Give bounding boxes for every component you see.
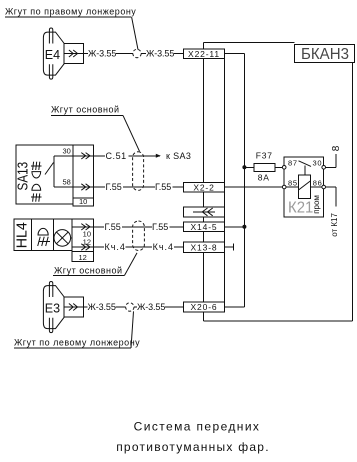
svg-text:Ж-3.55: Ж-3.55 bbox=[137, 302, 165, 312]
svg-text:пром: пром bbox=[312, 195, 321, 214]
svg-text:Жгут по левому лонжерону: Жгут по левому лонжерону bbox=[14, 338, 140, 348]
svg-text:Жгут основной: Жгут основной bbox=[51, 105, 119, 115]
svg-text:Жгут основной: Жгут основной bbox=[54, 265, 122, 275]
SA13 fog icon (position 2) bbox=[31, 184, 41, 201]
svg-text:Г.55: Г.55 bbox=[106, 182, 122, 192]
svg-text:HL4: HL4 bbox=[14, 222, 31, 248]
relay contact 87-30 bbox=[299, 161, 312, 175]
svg-text:E3: E3 bbox=[45, 301, 60, 315]
wire relay 30 up, net 8 bbox=[326, 154, 337, 167]
wire Г.55 from HL4 pin 10 bbox=[93, 226, 104, 228]
wire bbox=[134, 306, 137, 308]
wire with arrow to SA3 bbox=[129, 154, 161, 158]
svg-text:БКАН3: БКАН3 bbox=[301, 46, 349, 63]
svg-text:К21: К21 bbox=[288, 200, 313, 217]
callout label: Жгут по правому лонжерону bbox=[5, 7, 136, 18]
svg-text:58: 58 bbox=[62, 178, 70, 187]
wire bbox=[173, 186, 184, 188]
wire bbox=[116, 53, 133, 55]
relay K21 bbox=[284, 157, 324, 217]
wire bbox=[115, 306, 125, 308]
svg-text:Х22-11: Х22-11 bbox=[188, 49, 220, 59]
svg-text:12: 12 bbox=[79, 253, 87, 262]
wire X2-2 to relay pin 85 bbox=[225, 186, 283, 188]
callout label: Жгут по левому лонжерону bbox=[14, 338, 140, 349]
wire Г.55 from SA13 pin 58 bbox=[93, 186, 105, 188]
connector X2-2 bbox=[183, 182, 224, 192]
junction dot at fuse tap bbox=[242, 165, 246, 169]
svg-text:Г.55: Г.55 bbox=[105, 222, 121, 232]
callout label: Жгут основной (upper) bbox=[51, 105, 123, 116]
drawing caption bbox=[116, 420, 270, 455]
junction dot at X14-5 tap bbox=[242, 225, 246, 229]
leader line to junction on right-member harness bbox=[132, 17, 138, 50]
in-block outgoing arrow symbol bbox=[183, 207, 224, 217]
svg-text:Г.55: Г.55 bbox=[152, 222, 168, 232]
БКАН3 name box bbox=[295, 45, 355, 63]
svg-text:Х20-6: Х20-6 bbox=[191, 302, 218, 312]
svg-text:87: 87 bbox=[288, 159, 298, 168]
wire: X22-11 to power bus bbox=[225, 53, 245, 55]
wire С.51 from SA13 pin 30 bbox=[93, 155, 105, 157]
svg-text:Жгут по правому лонжерону: Жгут по правому лонжерону bbox=[5, 7, 136, 17]
connector X13-8 bbox=[183, 242, 224, 252]
wire Ж-3.55 from E4 to junction bbox=[84, 53, 88, 55]
switch SA13 bbox=[15, 145, 94, 206]
svg-text:Х14-5: Х14-5 bbox=[191, 222, 218, 232]
svg-text:8: 8 bbox=[331, 145, 342, 151]
HL4 pin 10 chevron bbox=[72, 224, 93, 230]
leader line to main harness connector bbox=[123, 115, 140, 151]
inner bus line of БКАН3 bbox=[224, 59, 226, 303]
wire bbox=[122, 226, 152, 228]
svg-text:F37: F37 bbox=[256, 151, 273, 161]
indicator lamp HL4 bbox=[14, 219, 94, 262]
svg-text:Ж-3.55: Ж-3.55 bbox=[146, 49, 174, 59]
svg-text:SA13: SA13 bbox=[15, 162, 32, 191]
svg-text:86: 86 bbox=[313, 178, 323, 187]
wire X14-5 to power bus bbox=[225, 226, 245, 228]
svg-text:Ж-3.55: Ж-3.55 bbox=[88, 49, 116, 59]
svg-text:Кч.4: Кч.4 bbox=[153, 242, 174, 252]
svg-text:85: 85 bbox=[288, 178, 298, 187]
relay coil bbox=[286, 175, 322, 199]
connector X20-6 bbox=[183, 302, 224, 312]
HL4 pin 12 chevron bbox=[72, 244, 93, 250]
inline connector junction (dashed circle) bbox=[133, 49, 141, 57]
inline connector junction (dashed circle) bbox=[126, 303, 134, 311]
svg-text:Система передних: Система передних bbox=[134, 420, 261, 434]
svg-text:Кч.4: Кч.4 bbox=[105, 242, 126, 252]
svg-text:8А: 8А bbox=[258, 173, 270, 183]
main harness pass-through connector (dashed, lower) bbox=[133, 221, 145, 251]
svg-text:10: 10 bbox=[79, 197, 87, 206]
power wire (vertical) bbox=[243, 54, 245, 308]
wire bbox=[126, 246, 153, 248]
connector X22-11 bbox=[183, 49, 224, 59]
svg-text:30: 30 bbox=[313, 159, 323, 168]
leader line to main harness connector (lower) bbox=[125, 253, 138, 276]
svg-text:Г.55: Г.55 bbox=[155, 182, 171, 192]
main harness pass-through connector (dashed, upper) bbox=[133, 152, 144, 191]
fuse F37 bbox=[244, 151, 282, 183]
HL4 fog icon bbox=[38, 228, 50, 246]
wire bbox=[141, 53, 146, 55]
HL4 lamp symbol bbox=[54, 230, 72, 247]
svg-text:С.51: С.51 bbox=[106, 151, 127, 161]
svg-text:Ж-3.55: Ж-3.55 bbox=[88, 302, 116, 312]
fog lamp E3 bbox=[43, 282, 83, 333]
wire bbox=[170, 226, 184, 228]
wire bbox=[174, 246, 184, 248]
SA13 switch contacts bbox=[45, 156, 73, 187]
wire Ж-3.55 from E3 to junction bbox=[84, 306, 88, 308]
fog lamp E4 bbox=[43, 28, 83, 79]
svg-text:противотуманных фар.: противотуманных фар. bbox=[116, 440, 270, 454]
wire relay 86 down, from K17 bbox=[326, 187, 337, 206]
svg-text:12: 12 bbox=[83, 237, 91, 246]
wire Кч.4 from HL4 pin 12 bbox=[93, 246, 104, 248]
leader line from label to junction bbox=[131, 311, 134, 348]
svg-text:Х13-8: Х13-8 bbox=[191, 242, 218, 252]
connector X14-5 bbox=[183, 222, 224, 232]
relay pin circles bbox=[282, 166, 325, 189]
SA13 pin 30 contact chevron bbox=[73, 153, 93, 159]
svg-text:Х2-2: Х2-2 bbox=[193, 182, 214, 192]
wire bbox=[123, 186, 155, 188]
svg-text:к SA3: к SA3 bbox=[166, 151, 191, 161]
SA13 pin 58 contact chevron bbox=[73, 184, 93, 190]
stub wire with terminator from X13-8 bbox=[225, 243, 234, 250]
callout label: Жгут основной (lower) bbox=[53, 265, 125, 275]
svg-text:30: 30 bbox=[62, 147, 70, 156]
block БКАН3 outline bbox=[204, 42, 353, 320]
SA13 fog icon (position 1) bbox=[31, 162, 41, 178]
wire X20-6 to power bus bbox=[225, 306, 245, 308]
wire bbox=[165, 306, 184, 308]
wire bbox=[174, 53, 184, 55]
svg-text:от К17: от К17 bbox=[330, 213, 339, 237]
svg-text:E4: E4 bbox=[45, 48, 60, 62]
